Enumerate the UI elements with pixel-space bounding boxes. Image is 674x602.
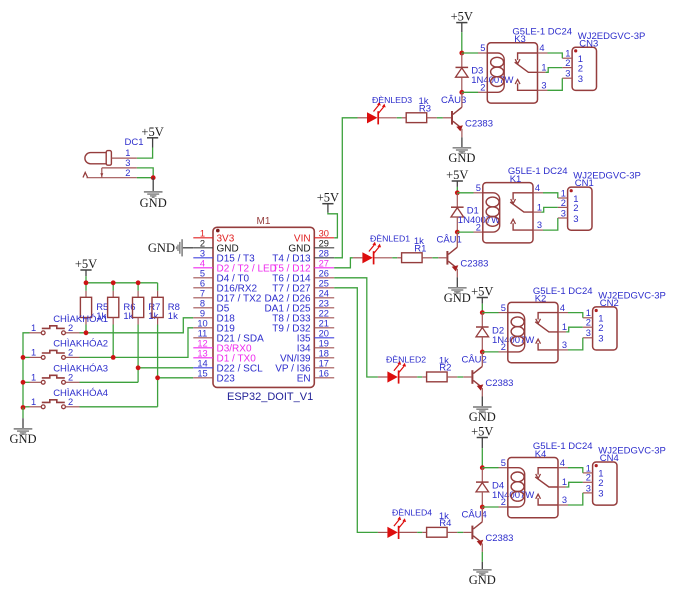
svg-text:16: 16 (319, 368, 329, 378)
svg-text:19: 19 (319, 338, 329, 348)
wire DC1 pin1 to +5V (137, 148, 153, 159)
wire R4 to base of CÂU4 (447, 531, 457, 533)
svg-text:CN1: CN1 (575, 178, 594, 189)
svg-text:1: 1 (562, 322, 567, 332)
transistor CÂU3 C2383 (451, 111, 453, 125)
svg-text:C2383: C2383 (465, 119, 493, 130)
wire CÂU4 node to K4 pin 2 (482, 506, 498, 508)
junction node +5V/D1/K1 pin5 (455, 190, 460, 195)
svg-text:5: 5 (200, 268, 205, 278)
pin 4 stub K3 (538, 52, 548, 54)
resistor R5 (80, 297, 91, 317)
svg-text:ESP32_DOIT_V1: ESP32_DOIT_V1 (227, 391, 313, 403)
wire K4 pin4 to CN4 pin1 (568, 468, 583, 473)
junction row4/pin15 (155, 375, 160, 380)
pin 11 M1 (193, 337, 213, 339)
svg-text:4: 4 (539, 43, 544, 53)
svg-text:3: 3 (541, 80, 546, 90)
svg-text:10: 10 (197, 318, 207, 328)
diode D3 1N4007W (461, 53, 463, 67)
pin 6 M1 (193, 287, 213, 289)
switch CHÌAKHÓA3 (30, 381, 42, 383)
svg-text:R4: R4 (439, 518, 451, 529)
svg-text:3: 3 (537, 220, 542, 230)
svg-text:2: 2 (586, 473, 591, 483)
svg-text:+5V: +5V (317, 191, 339, 205)
svg-text:4: 4 (200, 258, 205, 268)
wire R3 to base of CÂU3 (427, 117, 437, 119)
svg-text:ĐÈNLED3: ĐÈNLED3 (372, 95, 412, 105)
ground (M1 pin2) (182, 247, 193, 249)
svg-text:17: 17 (319, 358, 329, 368)
wire K1 pin3 to CN1 pin3 (543, 218, 558, 230)
svg-text:D23: D23 (217, 373, 236, 384)
pin 1 M1 (193, 237, 213, 239)
pin 1 stub CN4 (583, 472, 593, 474)
resistor R8 (152, 297, 163, 317)
switch CHÌAKHÓA1 (30, 332, 42, 334)
wire GND bus drop (22, 408, 24, 419)
wire DC1 pin3 to ground (137, 168, 153, 178)
pin 12 M1 (193, 347, 213, 349)
svg-text:CN2: CN2 (600, 298, 619, 309)
wire CÂU2 node to K2 pin 2 (482, 351, 498, 353)
junction node CÂU1 (455, 230, 460, 235)
diode D4 1N4007W (481, 468, 483, 482)
svg-text:GND: GND (444, 291, 471, 305)
pin 3 stub K2 (558, 349, 568, 351)
junction node +5V/D2/K2 pin5 (480, 310, 485, 315)
ground (DC1) (152, 178, 154, 192)
wire K2 pin4 to CN2 pin1 (568, 313, 583, 318)
pin 3 stub K3 (538, 89, 548, 91)
svg-text:22: 22 (319, 308, 329, 318)
resistor R6 (108, 297, 119, 317)
wire R8 to switch row 4 / pin15 net (157, 325, 159, 407)
wire R6 to switch row 2 (112, 325, 114, 358)
svg-text:29: 29 (319, 238, 329, 248)
svg-text:4: 4 (535, 183, 540, 193)
pin 3 stub CN4 (583, 492, 593, 494)
pin 1 indicator dot (216, 229, 220, 233)
svg-text:3: 3 (125, 158, 130, 168)
svg-text:2: 2 (578, 63, 583, 74)
pin 1 stub K2 (558, 331, 566, 333)
svg-text:+5V: +5V (471, 285, 493, 299)
junction row2/R6 (111, 355, 116, 360)
svg-text:CN4: CN4 (600, 453, 619, 464)
pin 18 M1 (314, 357, 334, 359)
junction row1/R5 (84, 330, 89, 335)
svg-text:C2383: C2383 (485, 533, 513, 544)
wire R2 to base of CÂU2 (447, 376, 457, 378)
pin 20 M1 (314, 337, 334, 339)
svg-text:CHÌAKHÓA4: CHÌAKHÓA4 (53, 388, 108, 399)
svg-text:18: 18 (319, 348, 329, 358)
svg-text:K3: K3 (514, 34, 526, 45)
wire pin26 to LED2 chain (334, 278, 378, 377)
svg-text:4: 4 (560, 303, 565, 313)
wire row3 to pin14 D22 (80, 381, 139, 383)
svg-text:4: 4 (560, 458, 565, 468)
svg-text:24: 24 (319, 288, 329, 298)
wire emitter of CÂU1 to ground (456, 269, 458, 278)
junction DC1 ground node (151, 175, 156, 180)
junction bus/row2 (21, 355, 26, 360)
wire K4 pin1 to CN4 pin2 (566, 482, 583, 487)
pin 4 stub K2 (558, 312, 568, 314)
relay K2 G5LE-1 DC24 (508, 302, 558, 362)
svg-text:+5V: +5V (141, 125, 163, 139)
junction node +5V/D4/K4 pin5 (480, 465, 485, 470)
pin 30 M1 (314, 237, 334, 239)
svg-text:20: 20 (319, 328, 329, 338)
connector DC1 barrel jack (85, 153, 107, 164)
pin 3 stub CN2 (583, 337, 593, 339)
svg-text:C2383: C2383 (460, 259, 488, 270)
wire pin25 to LED4 chain (334, 288, 378, 533)
svg-text:1: 1 (31, 397, 36, 407)
connector CN4 WJ2EDGVC-3P (593, 462, 617, 505)
pin 2 stub CN1 (558, 206, 568, 208)
svg-text:12: 12 (197, 338, 207, 348)
pin 1 stub K1 (533, 211, 541, 213)
pin 4 stub K4 (558, 467, 568, 469)
relay K4 G5LE-1 DC24 (508, 458, 558, 518)
svg-text:M1: M1 (257, 216, 271, 227)
wire row2 to pin10 D19 (80, 328, 194, 358)
svg-text:2: 2 (476, 222, 481, 232)
wire K1 pin1 to CN1 pin2 (541, 207, 558, 212)
svg-text:7: 7 (200, 288, 205, 298)
pin 3 stub K4 (558, 504, 568, 506)
connector CN2 WJ2EDGVC-3P (593, 307, 617, 350)
svg-text:R3: R3 (419, 103, 431, 114)
svg-text:3: 3 (565, 69, 570, 79)
junction bus/row4 (21, 405, 26, 410)
svg-text:2: 2 (598, 478, 603, 489)
svg-text:1: 1 (31, 372, 36, 382)
pin 27 M1 (314, 267, 334, 269)
junction node CÂU3 (459, 90, 464, 95)
op-amp-style module M1 ESP32_DOIT_V1 (213, 227, 314, 387)
svg-text:1: 1 (200, 228, 205, 238)
pin 3 M1 (193, 257, 213, 259)
resistor R7 (133, 297, 144, 317)
wire emitter of CÂU3 to ground (461, 129, 463, 138)
wire row1 to pin9 D18 (80, 318, 194, 333)
junction +5V/R5 (84, 280, 89, 285)
pin 4 stub K1 (533, 192, 543, 194)
wire DC1 pin2 to ground (137, 177, 153, 179)
svg-text:3: 3 (562, 340, 567, 350)
svg-text:3: 3 (586, 328, 591, 338)
transistor CÂU2 C2383 (471, 370, 473, 384)
svg-text:+5V: +5V (451, 10, 473, 24)
svg-text:ĐÈNLED4: ĐÈNLED4 (392, 508, 432, 518)
pin 16 M1 (314, 377, 334, 379)
pin 1 stub K4 (558, 486, 566, 488)
pin 9 M1 (193, 317, 213, 319)
wire ĐÈNLED4 cathode to R4 (399, 531, 417, 533)
svg-text:ĐÈNLED1: ĐÈNLED1 (370, 234, 410, 244)
svg-text:2: 2 (561, 198, 566, 208)
connector CN3 WJ2EDGVC-3P (572, 47, 596, 90)
ground (CÂU1) (456, 277, 458, 287)
svg-text:K4: K4 (535, 449, 547, 460)
pin 2 stub CN3 (562, 67, 572, 69)
pin 4 M1 (193, 267, 213, 269)
pin 24 M1 (314, 297, 334, 299)
wire +5V node to K2 pin 5 (482, 312, 498, 314)
wire pin27 to LED1 chain (334, 258, 353, 268)
junction node CÂU4 (480, 505, 485, 510)
pin 23 M1 (314, 307, 334, 309)
wire VIN pin30 to +5V (328, 213, 338, 238)
svg-text:1: 1 (541, 63, 546, 73)
svg-text:2: 2 (501, 342, 506, 352)
junction +5V/R7 (136, 280, 141, 285)
svg-text:GND: GND (448, 151, 475, 165)
svg-text:1: 1 (31, 323, 36, 333)
svg-text:3: 3 (598, 334, 603, 345)
wire K3 pin3 to CN3 pin3 (548, 78, 563, 90)
wire switches common to GND bus (23, 333, 30, 408)
pin 13 M1 (193, 357, 213, 359)
relay K1 G5LE-1 DC24 (483, 183, 533, 243)
LED ĐÈNLED1 (353, 257, 363, 259)
pin 5 M1 (193, 277, 213, 279)
svg-text:GND: GND (9, 432, 36, 446)
resistor R3 (406, 113, 427, 123)
svg-text:GND: GND (148, 241, 175, 255)
svg-text:+5V: +5V (75, 257, 97, 271)
svg-text:28: 28 (319, 248, 329, 258)
pin 1 stub CN1 (558, 197, 568, 199)
pin 28 M1 (314, 257, 334, 259)
resistor R1 (402, 253, 423, 263)
svg-text:R2: R2 (439, 363, 451, 374)
svg-text:3: 3 (200, 248, 205, 258)
svg-text:27: 27 (319, 258, 329, 268)
svg-text:15: 15 (197, 368, 207, 378)
diode D2 1N4007W (481, 313, 483, 327)
svg-text:26: 26 (319, 268, 329, 278)
wire +5V node to K4 pin 5 (482, 467, 498, 469)
svg-text:+5V: +5V (471, 425, 493, 439)
wire CÂU3 node to K3 pin 2 (462, 91, 478, 93)
wire K3 pin4 to CN3 pin1 (548, 53, 563, 58)
pin 3 stub CN1 (558, 217, 568, 219)
pin 22 M1 (314, 317, 334, 319)
svg-text:ĐÈNLED2: ĐÈNLED2 (386, 355, 426, 365)
svg-text:13: 13 (197, 348, 207, 358)
connector CN1 WJ2EDGVC-3P (568, 187, 592, 230)
svg-text:1: 1 (562, 477, 567, 487)
LED ĐÈNLED3 (358, 117, 368, 119)
pin 21 M1 (314, 327, 334, 329)
pin 3 stub CN3 (562, 77, 572, 79)
wire emitter of CÂU2 to ground (481, 388, 483, 397)
wire pin28 to LED3 chain (334, 118, 357, 258)
svg-text:GND: GND (469, 410, 496, 424)
pin 26 M1 (314, 277, 334, 279)
svg-text:8: 8 (200, 298, 205, 308)
wire ĐÈNLED2 cathode to R2 (399, 376, 417, 378)
pin 29 M1 (314, 247, 334, 249)
svg-text:GND: GND (469, 573, 496, 587)
svg-text:EN: EN (297, 373, 311, 384)
svg-text:+5V: +5V (446, 168, 468, 182)
wire R7 to switch row 3 / pin14 net (137, 325, 139, 383)
svg-text:3: 3 (578, 74, 583, 85)
ground (CÂU2) (481, 397, 483, 407)
pin 15 M1 (193, 377, 213, 379)
ground (CÂU3) (461, 137, 463, 147)
pin 2 stub CN4 (583, 481, 593, 483)
transistor CÂU1 C2383 (446, 251, 448, 265)
svg-text:1: 1 (537, 202, 542, 212)
switch CHÌAKHÓA4 (30, 406, 42, 408)
pin 19 M1 (314, 347, 334, 349)
svg-text:3: 3 (562, 495, 567, 505)
svg-text:2: 2 (565, 58, 570, 68)
resistor R2 (427, 372, 448, 382)
svg-text:3: 3 (586, 483, 591, 493)
svg-text:3: 3 (561, 208, 566, 218)
svg-text:1: 1 (125, 148, 130, 158)
pin 17 M1 (314, 367, 334, 369)
wire emitter CÂU4 to ground (481, 552, 483, 562)
svg-text:2: 2 (586, 318, 591, 328)
ground (switches) (22, 418, 24, 428)
wire K2 pin1 to CN2 pin2 (566, 327, 583, 332)
svg-text:CÂU1: CÂU1 (436, 235, 461, 246)
wire R5 to switch row 1 (85, 325, 87, 333)
svg-text:2: 2 (598, 323, 603, 334)
diode D1 1N4007W (456, 193, 458, 207)
svg-text:11: 11 (198, 328, 208, 338)
LED ĐÈNLED4 (378, 531, 388, 533)
svg-text:K1: K1 (510, 174, 522, 185)
resistor R4 (427, 527, 448, 537)
pin 25 M1 (314, 287, 334, 289)
svg-text:CÂU4: CÂU4 (461, 510, 486, 521)
transistor CÂU4 C2383 (471, 526, 473, 540)
junction bus/row3 (21, 380, 26, 385)
svg-text:6: 6 (200, 278, 205, 288)
pin 1 stub CN2 (583, 317, 593, 319)
pin 1 stub K3 (538, 71, 546, 73)
pin 8 M1 (193, 307, 213, 309)
svg-text:GND: GND (140, 196, 167, 210)
pin 14 M1 (193, 367, 213, 369)
svg-text:2: 2 (200, 238, 205, 248)
svg-text:1: 1 (31, 347, 36, 357)
ground (CÂU4) (481, 562, 483, 569)
svg-text:30: 30 (319, 228, 329, 238)
svg-text:5: 5 (476, 183, 481, 193)
svg-text:25: 25 (319, 278, 329, 288)
wire K1 pin4 to CN1 pin1 (543, 193, 558, 198)
wire +5V node to K1 pin 5 (457, 192, 473, 194)
svg-text:CHÌAKHÓA1: CHÌAKHÓA1 (53, 314, 108, 325)
svg-text:1k: 1k (168, 311, 178, 322)
relay K3 G5LE-1 DC24 (487, 43, 537, 103)
svg-text:CHÌAKHÓA3: CHÌAKHÓA3 (53, 363, 108, 374)
pin 7 M1 (193, 297, 213, 299)
junction node CÂU2 (480, 350, 485, 355)
wire R1 to base of CÂU1 (422, 257, 432, 259)
wire K4 pin3 to CN4 pin3 (568, 493, 583, 505)
wire CÂU1 node to K1 pin 2 (457, 231, 473, 233)
switch CHÌAKHÓA2 (30, 356, 42, 358)
pin 1 stub CN3 (562, 57, 572, 59)
svg-text:5: 5 (501, 458, 506, 468)
svg-text:21: 21 (319, 318, 329, 328)
junction row3/pin14 (136, 365, 141, 370)
svg-text:14: 14 (197, 358, 207, 368)
wire ĐÈNLED1 cathode to R1 (374, 257, 392, 259)
svg-text:R1: R1 (414, 243, 426, 254)
pin 3 stub K1 (533, 229, 543, 231)
wire row4 to pin15 D23 (80, 406, 158, 408)
svg-text:K2: K2 (535, 294, 547, 305)
svg-text:2: 2 (125, 168, 130, 178)
wire K3 pin1 to CN3 pin2 (546, 68, 563, 73)
svg-text:3: 3 (573, 214, 578, 225)
wire +5V bus to resistor tops (86, 282, 158, 284)
svg-text:CN3: CN3 (579, 38, 598, 49)
pin 2 M1 (193, 247, 213, 249)
pin 10 M1 (193, 327, 213, 329)
wire ĐÈNLED3 cathode to R3 (379, 117, 397, 119)
svg-text:2: 2 (501, 497, 506, 507)
svg-text:CHÌAKHÓA2: CHÌAKHÓA2 (53, 338, 108, 349)
wire +5V node to K3 pin 5 (462, 52, 478, 54)
svg-text:C2383: C2383 (485, 378, 513, 389)
svg-text:2: 2 (480, 83, 485, 93)
svg-text:2: 2 (573, 203, 578, 214)
wire K2 pin3 to CN2 pin3 (568, 338, 583, 350)
svg-text:DC1: DC1 (125, 137, 144, 148)
wire emitter of CÂU4 to ground (481, 543, 483, 552)
pin 2 stub CN2 (583, 326, 593, 328)
svg-text:3: 3 (598, 489, 603, 500)
svg-text:9: 9 (200, 308, 205, 318)
svg-text:23: 23 (319, 298, 329, 308)
junction node +5V/D3/K3 pin5 (459, 51, 464, 56)
svg-text:5: 5 (501, 303, 506, 313)
svg-text:5: 5 (480, 43, 485, 53)
LED ĐÈNLED2 (378, 376, 388, 378)
svg-text:CÂU2: CÂU2 (461, 355, 486, 366)
junction +5V/R6 (111, 280, 116, 285)
